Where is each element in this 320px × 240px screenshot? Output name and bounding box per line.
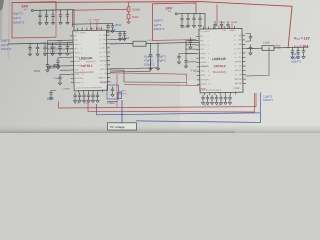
U1 left pin stub 1 — [70, 35, 73, 37]
svg-text:Iₒᵤₜ = 30A: Iₒᵤₜ = 30A — [294, 44, 309, 48]
wire U2 left pin row — [186, 52, 197, 54]
input cap C12 phase1 — [51, 10, 54, 22]
24V input red box bottom edge — [12, 36, 56, 39]
svg-text:24: 24 — [99, 35, 101, 37]
svg-text:4: 4 — [81, 48, 82, 50]
wire red comp share bus2 — [88, 93, 255, 112]
svg-text:100nF*2: 100nF*2 — [13, 21, 25, 25]
svg-text:MODE: MODE — [75, 61, 81, 63]
U2 top pin stub 3 — [213, 26, 215, 29]
wire U1 CB callout — [90, 22, 92, 31]
svg-text:11: 11 — [82, 78, 84, 80]
U2 top pin stub 1 — [202, 27, 204, 30]
svg-text:15: 15 — [235, 74, 237, 76]
svg-text:Vin: Vin — [24, 9, 27, 11]
svg-text:100nF*1: 100nF*1 — [1, 47, 12, 51]
input cap C11 phase1 — [45, 10, 48, 21]
U1 comp part 1 — [78, 93, 81, 100]
cap U2 top bypass 2 — [226, 21, 229, 30]
svg-text:1: 1 — [81, 35, 82, 37]
svg-text:PFM: PFM — [74, 57, 78, 59]
svg-text:6: 6 — [208, 57, 209, 59]
wire U2 left pin row — [186, 44, 197, 46]
U1 left pin stub 8 — [71, 65, 74, 67]
svg-text:49.9Ω: 49.9Ω — [50, 47, 56, 49]
resistor 100k divider upper — [127, 7, 130, 12]
U1 right pin stub 9 — [107, 68, 110, 70]
svg-text:SW: SW — [103, 43, 106, 45]
node Vin phase2 — [175, 13, 177, 15]
cap U2 vcc right — [249, 45, 252, 53]
svg-text:DITH: DITH — [201, 75, 206, 77]
svg-text:7: 7 — [82, 61, 83, 63]
wire 24V top rail to Vout corner — [12, 2, 292, 47]
U2 right pin stub 11 — [243, 78, 246, 80]
svg-text:4: 4 — [208, 49, 209, 51]
U2 right pin stub 8 — [243, 65, 246, 67]
U1 top pin stub 2 — [81, 28, 83, 31]
op IC U1 CNTRL1 group — [70, 27, 111, 93]
wire U2 FB sense loop — [246, 48, 270, 76]
svg-text:COMP: COMP — [100, 82, 107, 84]
svg-text:47μF*2: 47μF*2 — [144, 59, 153, 63]
wire EMI filtered rail — [8, 43, 74, 44]
cap U1 HB b — [123, 31, 126, 37]
svg-text:CNTRL2: CNTRL2 — [214, 64, 226, 68]
wire Vout rail — [274, 46, 308, 49]
svg-text:VOUT: VOUT — [101, 69, 107, 71]
svg-text:Secondary: Secondary — [213, 70, 227, 74]
svg-text:18: 18 — [235, 61, 237, 63]
wire left bus vertical — [47, 41, 49, 63]
cap U2 VCC bypass — [177, 54, 180, 62]
U2 left pin stub 5 — [196, 53, 199, 55]
svg-text:VCC VIN EN: VCC VIN EN — [199, 31, 210, 33]
U2 left pin stub 8 — [197, 66, 200, 68]
svg-text:OSC: OSC — [75, 69, 80, 71]
svg-text:16: 16 — [100, 69, 102, 71]
svg-text:OSC: OSC — [201, 71, 206, 73]
U2 comp part 1 — [206, 95, 209, 102]
svg-text:22: 22 — [99, 43, 101, 45]
svg-text:VCC VIN EN: VCC VIN EN — [75, 32, 86, 34]
svg-text:10μF*3: 10μF*3 — [13, 12, 23, 16]
filter cap C20 — [28, 44, 31, 54]
U2 right pin stub 7 — [243, 61, 246, 63]
svg-text:20: 20 — [234, 53, 236, 55]
wire U2 left bus — [185, 41, 187, 59]
wire U1 SYNCIN — [54, 65, 71, 67]
node Vout a — [278, 47, 279, 48]
svg-text:2.2nF: 2.2nF — [216, 105, 222, 107]
U2 right pin stub 1 — [242, 35, 245, 37]
svg-text:AGND RT SS/ATRK DEMB COMP: AGND RT SS/ATRK DEMB COMP — [76, 86, 103, 90]
svg-text:5V voltage: 5V voltage — [110, 125, 125, 129]
U2 bottom pin stub 3 — [214, 93, 216, 95]
svg-text:Vin: Vin — [168, 11, 171, 13]
svg-text:1: 1 — [208, 36, 209, 38]
U2 left pin stub 9 — [197, 70, 200, 72]
svg-text:PGND: PGND — [101, 60, 107, 62]
svg-text:15: 15 — [100, 73, 102, 75]
U1 left pin stub 9 — [71, 69, 74, 71]
cap U1 top a — [106, 24, 109, 30]
wire U1 DITH — [60, 73, 71, 75]
U1 right pin stub 2 — [107, 38, 110, 40]
svg-text:8: 8 — [82, 65, 83, 67]
U2 bottom pin stub 7 — [235, 92, 237, 94]
output cap bank2 0 — [291, 47, 294, 56]
svg-text:VDDA: VDDA — [94, 18, 100, 21]
cap U1 VCC bypass — [56, 58, 59, 67]
input cap C10 phase1 — [38, 10, 41, 22]
svg-text:18: 18 — [100, 60, 102, 62]
block 5V voltage supply — [108, 123, 137, 130]
wire U1 SW out — [110, 43, 133, 45]
svg-text:22: 22 — [234, 44, 236, 46]
U1 top pin stub 5 — [95, 27, 97, 30]
wire Vin rail phase1 — [33, 9, 74, 12]
svg-text:Vout: Vout — [275, 43, 281, 47]
U2 left pin stub 12 — [197, 83, 200, 85]
svg-text:14: 14 — [235, 79, 237, 81]
wire SYNCOUT U1 to U2 — [110, 73, 187, 85]
U2 left pin stub 1 — [196, 35, 199, 37]
wire U1 FB sense — [110, 68, 158, 69]
U1 left pin stub 6 — [70, 56, 73, 58]
svg-text:10μF*3: 10μF*3 — [144, 55, 153, 59]
svg-text:3: 3 — [208, 44, 209, 46]
svg-text:UVLO: UVLO — [200, 44, 206, 46]
wire U2 SW out — [246, 47, 263, 49]
24V red box phase2 bottom — [153, 39, 197, 42]
wire blue 5V bus1 — [97, 104, 261, 115]
svg-text:100nF*1: 100nF*1 — [291, 60, 302, 64]
U2 left pin stub 2 — [196, 40, 199, 42]
U1 comp part 0 — [73, 93, 76, 100]
svg-text:COMP: COMP — [233, 88, 240, 90]
svg-text:4.7μF: 4.7μF — [191, 70, 198, 73]
U1 top pin stub 4 — [91, 27, 93, 30]
svg-text:VCC: VCC — [200, 49, 205, 51]
U2 comp part 4 — [219, 95, 222, 102]
wire divider top — [128, 2, 130, 7]
wire U1 VDDA callout — [96, 21, 98, 30]
U2 bottom pin stub 2 — [209, 93, 211, 95]
wire VOUT tap vertical — [150, 62, 152, 71]
output cap bank1 1 — [156, 43, 159, 67]
cap U2 top bypass 0 — [213, 21, 216, 30]
U2 right pin stub 12 — [243, 82, 246, 84]
node FB tap — [268, 47, 269, 48]
cap U1 AGND filter — [49, 91, 52, 97]
svg-text:DITH: DITH — [75, 74, 80, 76]
cap U2 bootstrap — [249, 34, 252, 42]
U1 right pin stub 6 — [107, 55, 110, 57]
svg-text:COMP1: COMP1 — [199, 89, 207, 91]
U1 bottom pin stub 2 — [82, 90, 84, 92]
node Vout b — [287, 47, 288, 48]
svg-text:PFM: PFM — [200, 58, 204, 60]
svg-text:11: 11 — [208, 79, 210, 81]
svg-text:10: 10 — [82, 74, 84, 76]
U1 left pin stub 12 — [71, 82, 74, 84]
24V input red box right edge — [55, 2, 57, 37]
U2 right pin stub 6 — [242, 56, 245, 58]
wire U1 HO — [110, 38, 126, 40]
wire blue loop lower — [136, 93, 261, 123]
U1 left pin stub 10 — [71, 73, 74, 75]
U1 bottom pin stub 3 — [87, 90, 89, 92]
U2 comp part 0 — [201, 95, 204, 102]
svg-text:3: 3 — [81, 44, 82, 46]
input cap phase2 1 — [186, 14, 189, 25]
wire blue 5V feed to box — [121, 100, 123, 123]
IC U1 body — [73, 30, 108, 91]
svg-text:2.2μF*1: 2.2μF*1 — [263, 94, 273, 98]
svg-text:21: 21 — [234, 48, 236, 50]
svg-text:100nF*2: 100nF*2 — [154, 27, 165, 31]
svg-text:100nF*1: 100nF*1 — [263, 98, 273, 102]
U1 comp part 3 — [87, 93, 90, 100]
filter cap C23 — [51, 43, 54, 53]
cap U1 SS — [58, 74, 61, 82]
U1 top pin stub 1 — [76, 28, 78, 31]
U2 top pin stub 5 — [223, 26, 225, 29]
op IC U2 CNTRL2 group — [196, 26, 246, 96]
U2 right pin stub 5 — [242, 52, 245, 54]
U2 bottom pin stub 4 — [219, 93, 221, 95]
wire Vin rail phase2 — [177, 12, 205, 15]
cap U1 top b — [111, 23, 114, 29]
input cap C13 phase1 — [59, 10, 62, 22]
U2 bottom pin stub 1 — [204, 93, 206, 95]
svg-text:17: 17 — [100, 65, 102, 67]
svg-text:100kΩ: 100kΩ — [132, 7, 140, 11]
svg-text:20: 20 — [99, 52, 101, 54]
U2 left pin stub 7 — [197, 61, 200, 63]
cap U2 VDDA bypass — [184, 58, 187, 65]
svg-text:8: 8 — [208, 66, 209, 68]
svg-text:VDDA: VDDA — [229, 29, 235, 32]
svg-text:19: 19 — [99, 56, 101, 58]
svg-text:13: 13 — [235, 83, 237, 85]
svg-text:VDDA: VDDA — [231, 21, 237, 24]
svg-text:VDDA: VDDA — [200, 52, 206, 55]
svg-text:10: 10 — [208, 75, 210, 77]
U2 bottom pin stub 5 — [224, 92, 226, 94]
U1 comp part 4 — [91, 93, 94, 100]
wire FB tap vertical — [157, 60, 159, 68]
U1 right pin stub 7 — [107, 60, 110, 62]
svg-text:AGND: AGND — [201, 83, 207, 86]
wire U1 left pin row — [48, 48, 71, 50]
svg-text:3.3μH: 3.3μH — [263, 42, 270, 45]
cap C vcc 2.2uF body — [118, 93, 122, 99]
U2 top pin stub 4 — [218, 26, 220, 29]
wire Vin down to U1 VIN — [73, 10, 75, 31]
ground divider — [127, 21, 130, 24]
wire U2 SYNC — [186, 61, 197, 63]
svg-text:10μF*3: 10μF*3 — [291, 52, 300, 56]
U2 comp part 5 — [224, 95, 227, 102]
24V input red box left/top edge — [12, 2, 56, 38]
svg-text:24: 24 — [234, 35, 236, 37]
U2 right pin stub 10 — [243, 74, 246, 76]
svg-text:MODE: MODE — [201, 62, 207, 64]
svg-text:2: 2 — [208, 40, 209, 42]
output cap bank2 1 — [296, 47, 299, 56]
U1 bottom pin stub 4 — [92, 90, 94, 92]
wire U2 HO — [246, 40, 251, 42]
wire U1 HB row — [110, 30, 126, 33]
svg-text:5: 5 — [208, 53, 209, 55]
svg-text:100nF*1: 100nF*1 — [119, 94, 128, 96]
svg-text:2: 2 — [81, 40, 82, 42]
U2 top pin stub 7 — [234, 26, 236, 29]
U1 right pin stub 11 — [107, 77, 110, 79]
U2 comp part 3 — [215, 95, 218, 102]
svg-text:2.2nF: 2.2nF — [84, 103, 90, 105]
svg-text:VOUT: VOUT — [236, 70, 242, 72]
filter cap C24 — [58, 43, 61, 53]
output cap bank2 2 — [302, 47, 305, 56]
svg-text:VDDA: VDDA — [219, 21, 225, 24]
U2 left pin stub 11 — [197, 79, 200, 81]
svg-text:2.2μF*1: 2.2μF*1 — [119, 91, 127, 93]
U2 right pin stub 2 — [242, 39, 245, 41]
U1 bottom pin stub 6 — [102, 90, 104, 92]
resistor U1 mode — [54, 65, 59, 67]
svg-text:23: 23 — [99, 39, 101, 41]
U2 top pin stub 6 — [228, 26, 230, 29]
wire U1 left pin row — [48, 52, 71, 54]
U1 left pin stub 5 — [70, 52, 73, 54]
svg-text:47μF*2: 47μF*2 — [157, 59, 166, 63]
U1 comp part 2 — [82, 93, 85, 100]
U1 left pin stub 2 — [70, 39, 73, 41]
svg-text:100nF: 100nF — [183, 27, 190, 29]
svg-text:100μF*1: 100μF*1 — [144, 63, 155, 67]
svg-text:1μF*1: 1μF*1 — [13, 16, 21, 20]
svg-text:7: 7 — [208, 62, 209, 64]
U2 bottom pin stub 6 — [230, 92, 232, 94]
svg-text:23: 23 — [234, 40, 236, 42]
svg-text:10kΩ: 10kΩ — [132, 15, 139, 19]
svg-text:HOL: HOL — [237, 48, 241, 50]
wire U1 VCC — [58, 56, 71, 58]
U1 left pin stub 3 — [70, 43, 73, 45]
filter cap C22 — [43, 43, 46, 53]
wire U1 FSYNC — [60, 69, 71, 71]
wire U2 VCC — [179, 52, 197, 54]
svg-text:HOL: HOL — [102, 48, 106, 50]
svg-text:10μF*3: 10μF*3 — [157, 55, 166, 59]
svg-text:SYNCIN: SYNCIN — [201, 66, 209, 68]
blue highlight box U1 FB parts — [107, 85, 119, 99]
U1 top pin stub 3 — [86, 28, 88, 31]
wire U2 callout b — [231, 23, 233, 29]
node Vin phase1 — [31, 9, 33, 11]
svg-text:VDDA: VDDA — [34, 70, 41, 73]
ground mode resistor — [47, 66, 50, 69]
input cap C14 phase1 — [66, 10, 69, 21]
wire divider bottom — [128, 19, 130, 21]
svg-text:12: 12 — [208, 84, 210, 86]
U1 left pin stub 11 — [71, 77, 74, 79]
input cap phase2 2 — [192, 13, 195, 24]
svg-text:19: 19 — [234, 57, 236, 59]
wire mode resistor left — [49, 65, 54, 67]
svg-text:16: 16 — [235, 70, 237, 72]
U2 left pin stub 6 — [196, 57, 199, 59]
cap U2 top-left bypass — [189, 38, 192, 47]
film grain overlay — [0, 0, 320, 133]
wire Vin down to U2 — [204, 13, 206, 28]
svg-text:VDDA: VDDA — [40, 42, 47, 45]
wire red drop to comp bus — [116, 74, 118, 108]
filter cap C21 — [36, 43, 39, 53]
24V input red box phase2 — [153, 3, 197, 41]
wire phase1 output rail — [146, 42, 200, 43]
wire U2 EN — [186, 39, 197, 41]
resistor 10k divider lower — [127, 14, 130, 19]
U2 left pin stub 4 — [196, 48, 199, 50]
U1 right pin stub 1 — [106, 34, 109, 36]
cap U2 top bypass 1 — [220, 21, 223, 30]
wire red comp share bus1 — [59, 93, 257, 108]
svg-text:PGND: PGND — [236, 61, 242, 63]
svg-text:24V: 24V — [166, 6, 173, 10]
U1 right pin stub 4 — [107, 47, 110, 49]
wire U2 HB — [246, 33, 251, 35]
U1 right pin stub 8 — [107, 64, 110, 66]
svg-text:12: 12 — [82, 82, 84, 84]
wire dark sense link — [110, 70, 186, 82]
U1 bottom pin stub 5 — [97, 90, 99, 92]
svg-text:21: 21 — [99, 48, 101, 50]
svg-text:24V: 24V — [22, 4, 29, 8]
wire U2 left pin row — [186, 48, 197, 50]
svg-text:0.1μF: 0.1μF — [50, 51, 56, 53]
U1 right pin stub 3 — [107, 43, 110, 45]
U2 right pin stub 9 — [243, 69, 246, 71]
svg-text:AGND: AGND — [75, 81, 81, 84]
U2 right pin stub 3 — [242, 43, 245, 45]
U2 left pin stub 10 — [197, 75, 200, 77]
svg-text:560pF: 560pF — [47, 98, 54, 101]
U1 bottom pin stub 1 — [78, 90, 80, 92]
wire U1 VCC top rail — [72, 22, 113, 25]
filter cap C25 — [66, 43, 69, 53]
U1 left pin stub 4 — [70, 48, 73, 50]
svg-text:LOL: LOL — [103, 56, 107, 58]
U2 comp part 2 — [210, 95, 213, 102]
svg-text:10nF: 10nF — [54, 78, 60, 80]
svg-text:17: 17 — [235, 66, 237, 68]
cap inside blue box — [111, 87, 114, 94]
wire U2 callout a — [221, 24, 223, 29]
wire red DEMB link — [124, 84, 199, 87]
red 24V inner rail — [73, 9, 129, 27]
U2 top pin stub 2 — [208, 26, 210, 29]
U2 comp part 6 — [228, 95, 231, 102]
wire U1 EN — [48, 39, 71, 41]
svg-text:LOL: LOL — [238, 57, 242, 59]
svg-text:UVLO: UVLO — [74, 44, 80, 46]
svg-text:SW: SW — [238, 44, 241, 46]
output cap bank1 0 — [149, 43, 152, 67]
